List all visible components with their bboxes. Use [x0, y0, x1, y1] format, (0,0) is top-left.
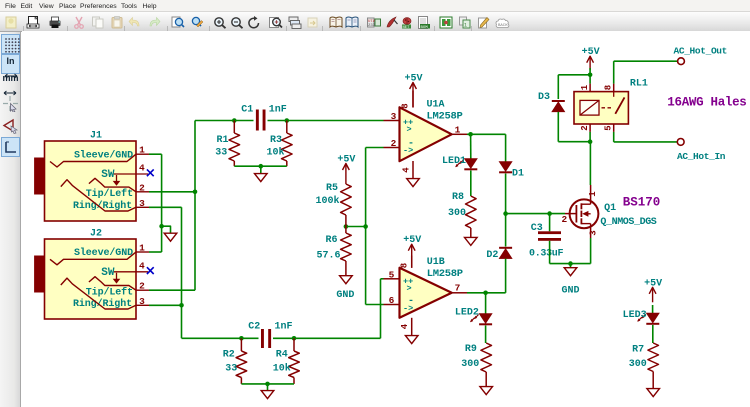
wire ring vertical bus	[181, 207, 183, 338]
svg-text:C1: C1	[241, 104, 253, 115]
junction source ground node	[568, 261, 573, 266]
op-amp U1A body	[400, 107, 452, 161]
connector J2 sleeve barrel	[35, 256, 45, 292]
svg-text:>: >	[407, 284, 412, 294]
wire source to ground run	[550, 263, 591, 265]
connector J2 ring contact arm	[61, 278, 136, 309]
svg-text:R4: R4	[276, 349, 288, 360]
svg-text:3: 3	[588, 230, 598, 235]
wire D1 branch down	[505, 134, 507, 161]
transistor Q1 source pin	[581, 223, 590, 225]
op-amp U1A pin 2	[384, 147, 400, 149]
capacitor C2	[261, 329, 264, 348]
connector J1 pin 1	[136, 153, 149, 155]
connector J1 sleeve contact arm	[50, 154, 136, 167]
junction tip bus at J1 pin2	[193, 190, 198, 195]
wire LED2 to R9	[485, 326, 487, 344]
svg-text:1nF: 1nF	[275, 322, 293, 333]
resistor R1	[233, 121, 235, 134]
wire J2 pin1 to sleeve bus	[149, 251, 162, 253]
svg-text:GND: GND	[561, 286, 579, 297]
svg-text:2: 2	[562, 214, 568, 225]
ground symbol below R7	[647, 389, 660, 397]
svg-text:2: 2	[580, 125, 590, 130]
svg-text:33: 33	[215, 148, 227, 159]
wire C2 net right segment	[273, 337, 381, 339]
svg-text:2: 2	[391, 138, 397, 149]
resistor R3	[286, 121, 288, 134]
relay RL1 body	[574, 92, 628, 124]
connector J1 switch pin line	[114, 173, 148, 175]
LED LED3	[646, 313, 659, 323]
svg-text:300: 300	[629, 359, 647, 370]
svg-text:J2: J2	[90, 229, 102, 240]
svg-text:AC_Hot_Out: AC_Hot_Out	[674, 45, 728, 56]
resistor R5	[341, 184, 352, 215]
svg-text:6: 6	[389, 295, 395, 306]
wire +5V to coil junction	[589, 68, 591, 75]
op-amp U1B pin 5	[384, 278, 400, 280]
no-connect flag at J1 pin 4	[147, 169, 154, 176]
wire J2 pin3 to ring bus	[149, 304, 182, 306]
connector J1 body	[45, 141, 137, 221]
wire gate net to D2	[505, 214, 507, 247]
connector J1 switch actuator arrow	[116, 175, 118, 182]
op-amp U1B pin 7 output	[452, 292, 467, 294]
svg-text:3: 3	[139, 296, 145, 307]
svg-text:3: 3	[391, 111, 397, 122]
junction gate net at C3	[547, 211, 552, 216]
svg-text:D2: D2	[486, 250, 498, 261]
svg-text:33: 33	[225, 364, 237, 375]
resistor R2	[240, 338, 242, 351]
op-amp U1B pin 8 power	[411, 256, 413, 268]
terminal circle AC_Hot_In	[677, 139, 684, 146]
wire J1 pin1 to sleeve bus	[149, 153, 162, 155]
junction U1A output node	[468, 132, 473, 137]
wire junction to D3 top	[558, 74, 590, 76]
op-amp U1B body	[400, 268, 452, 318]
svg-text:100k: 100k	[316, 195, 340, 207]
wire pin2 vertical bus	[365, 148, 367, 305]
svg-text:LED1: LED1	[442, 156, 466, 167]
svg-text:Sleeve/GND: Sleeve/GND	[74, 247, 133, 259]
relay RL1 coil	[580, 100, 599, 115]
connector J1 sleeve barrel	[35, 158, 45, 194]
wire J1 pin2 to tip bus	[149, 191, 195, 193]
LED LED2	[479, 314, 492, 324]
junction R5/R6 tap to bus	[363, 224, 368, 229]
op-amp U1A pin 4 ground	[412, 161, 414, 179]
wire J1 pin3 to ring bus	[149, 206, 182, 208]
connector J2 tip contact arm	[89, 277, 136, 291]
no-connect flag at J2 pin 4	[147, 267, 154, 274]
ground symbol below C1 network	[255, 174, 268, 182]
wire gate net horizontal	[506, 213, 565, 215]
junction C1/R1 left node	[232, 118, 237, 123]
svg-text:57.6: 57.6	[317, 251, 341, 262]
wire coil- to drain junction	[589, 132, 591, 142]
connector J2 switch actuator arrow	[116, 273, 118, 280]
svg-text:Q1: Q1	[604, 203, 616, 214]
svg-text:2: 2	[139, 182, 145, 193]
ground symbol below R9	[480, 387, 493, 395]
resistor R8	[466, 196, 477, 228]
svg-text:U1B: U1B	[427, 257, 445, 268]
wire top net C1 right segment	[268, 120, 384, 122]
LED LED1	[464, 159, 477, 169]
power symbol +5V above U1B	[411, 244, 413, 268]
svg-text:4: 4	[139, 163, 145, 174]
connector J2 switch pin line	[114, 271, 148, 273]
svg-text:SW: SW	[101, 267, 115, 279]
svg-text:1: 1	[580, 84, 590, 90]
wire D3 bottom	[557, 112, 559, 142]
svg-text:+5V: +5V	[403, 235, 421, 246]
diode D2	[499, 249, 512, 259]
wire pin5 vertical to C2 net	[380, 279, 382, 339]
ground symbol at sleeve bus	[164, 233, 177, 241]
svg-text:Tip/Left: Tip/Left	[86, 188, 133, 200]
svg-text:AC_Hot_In: AC_Hot_In	[677, 151, 726, 162]
svg-text:R9: R9	[465, 344, 477, 355]
wire tip vertical bus	[194, 121, 196, 291]
svg-text:R5: R5	[326, 183, 338, 194]
svg-text:3: 3	[139, 198, 145, 209]
junction R5/R6 node	[344, 224, 349, 229]
connector J2 pin 2	[136, 289, 149, 291]
svg-text:LED3: LED3	[623, 310, 647, 321]
svg-text:5: 5	[603, 125, 613, 130]
svg-text:300: 300	[448, 208, 466, 219]
svg-text:1: 1	[139, 145, 145, 156]
wire C2 net left segment	[182, 337, 259, 339]
junction ring bus at J2 pin3	[179, 303, 184, 308]
wire ground stub below C1 network	[260, 166, 262, 173]
connector J1 ring contact arm	[61, 180, 136, 211]
op-amp U1B pin 6	[384, 304, 400, 306]
svg-text:2: 2	[139, 281, 145, 292]
wire +5V to LED3	[652, 305, 654, 313]
wire sleeve vertical bus	[161, 154, 163, 252]
svg-text:Tip/Left: Tip/Left	[86, 286, 133, 298]
capacitor C3	[538, 231, 561, 234]
wire R1-R3 bottom	[234, 165, 286, 167]
svg-text:R1: R1	[217, 135, 229, 146]
junction C2/R2 left node	[239, 336, 244, 341]
wire coil+ to +5V junction	[589, 75, 591, 84]
svg-text:SW: SW	[101, 169, 115, 181]
svg-text:BS170: BS170	[623, 195, 661, 209]
ground symbol below R8	[465, 237, 478, 245]
svg-text:C2: C2	[248, 322, 260, 333]
svg-text:GND: GND	[336, 290, 354, 301]
wire ground stub at source	[570, 264, 572, 268]
svg-text:R8: R8	[452, 192, 464, 203]
wire U1A pin2 horizontal	[366, 147, 384, 149]
svg-text:Ring/Right: Ring/Right	[73, 298, 132, 310]
op-amp U1A pin 8 power	[412, 91, 414, 108]
svg-text:5: 5	[389, 269, 395, 280]
transistor Q1 gate pin	[565, 213, 570, 215]
wire NO contact to AC_Hot_In	[613, 132, 615, 142]
power symbol +5V above relay	[589, 56, 591, 70]
svg-text:16AWG Hales: 16AWG Hales	[667, 96, 746, 110]
wire D2 to U1B output	[505, 259, 507, 293]
resistor R7	[648, 343, 659, 372]
junction D3/coil/drain	[588, 139, 593, 144]
svg-text:+5V: +5V	[404, 74, 422, 85]
capacitor C1	[256, 110, 259, 131]
svg-text:300: 300	[461, 359, 479, 370]
diode D3	[552, 102, 565, 112]
svg-text:Sleeve/GND: Sleeve/GND	[74, 149, 133, 161]
wire C3 top stub	[549, 214, 551, 232]
wire top net C1 left segment	[195, 120, 254, 122]
resistor R4	[293, 338, 295, 351]
relay RL1 pin 8	[613, 84, 615, 92]
connector J1 pin 2	[136, 191, 149, 193]
svg-text:+5V: +5V	[644, 278, 662, 289]
svg-text:R7: R7	[632, 344, 644, 355]
svg-text:10k: 10k	[267, 147, 285, 159]
ground symbol below U1B	[405, 336, 418, 344]
svg-text:8: 8	[401, 103, 411, 108]
power symbol +5V above U1A	[412, 83, 414, 108]
resistor R6	[345, 227, 347, 234]
svg-text:J1: J1	[90, 131, 102, 142]
svg-text:8: 8	[400, 263, 410, 268]
wire R5/R6 tap	[346, 226, 366, 228]
connector J2 pin 1	[136, 251, 149, 253]
wire D1 to gate net	[505, 174, 507, 214]
svg-text:R3: R3	[270, 135, 282, 146]
connector J2 pin 3	[136, 304, 149, 306]
junction R1/R3 ground node	[259, 164, 264, 169]
svg-text:LM258P: LM258P	[427, 268, 463, 280]
svg-text:Q_NMOS_DGS: Q_NMOS_DGS	[600, 217, 656, 228]
svg-text:8: 8	[603, 85, 613, 90]
relay RL1 pin 1	[589, 84, 591, 92]
svg-text:4: 4	[139, 260, 145, 271]
wire LED3 to R7	[652, 325, 654, 343]
svg-text:R6: R6	[326, 235, 338, 246]
power symbol GND below R6	[340, 276, 353, 284]
svg-text:->: ->	[403, 146, 413, 156]
power symbol +5V above LED3	[652, 287, 654, 302]
diode D1	[499, 162, 512, 172]
svg-text:4: 4	[402, 167, 412, 173]
relay RL1 pin 5	[613, 124, 615, 132]
wire sleeve ground stub	[162, 226, 171, 233]
svg-text:7: 7	[455, 282, 461, 293]
wire LED1 to R8	[470, 171, 472, 197]
wire U1A output	[467, 133, 506, 135]
wire J2 pin2 to tip bus	[149, 289, 195, 291]
svg-text:LED2: LED2	[455, 308, 479, 319]
connector J2 sleeve contact arm	[50, 252, 136, 265]
svg-text:+5V: +5V	[582, 47, 600, 58]
resistor R9	[481, 343, 492, 372]
ground symbol below C2 network	[261, 391, 274, 399]
svg-text:RL1: RL1	[630, 79, 648, 90]
junction R2/R4 ground node	[265, 382, 270, 387]
svg-text:10k: 10k	[273, 363, 291, 375]
svg-text:1: 1	[588, 191, 598, 197]
wire source down	[590, 238, 592, 264]
junction +5V/D3/coil	[588, 73, 593, 78]
svg-text:C3: C3	[531, 223, 543, 234]
svg-text:0.33uF: 0.33uF	[529, 248, 564, 259]
svg-text:+5V: +5V	[337, 155, 355, 166]
junction C1/R3 right node	[285, 118, 290, 123]
wire LED2 branch	[485, 293, 487, 314]
wire drain to relay junction	[589, 142, 591, 185]
svg-text:1: 1	[455, 124, 461, 135]
relay RL1 dashed link	[602, 107, 614, 109]
wire U1B output	[467, 292, 506, 294]
junction gate net at D1/D2	[503, 211, 508, 216]
svg-text:->: ->	[403, 304, 413, 314]
transistor Q1 body	[570, 199, 599, 228]
power symbol +5V above R5	[345, 164, 347, 185]
connector J1 tip contact arm	[89, 178, 136, 192]
op-amp U1A pin 3	[384, 120, 400, 122]
svg-text:D3: D3	[538, 92, 550, 103]
svg-text:1: 1	[139, 243, 145, 254]
wire LED1 branch	[470, 134, 472, 158]
ground symbol below U1A	[407, 179, 420, 187]
svg-text:>: >	[407, 125, 412, 135]
wire common to AC_Hot_Out	[613, 61, 615, 83]
svg-text:R2: R2	[223, 349, 235, 360]
junction sleeve-ground	[159, 224, 164, 229]
svg-text:1nF: 1nF	[269, 104, 287, 115]
junction U1B output node	[483, 291, 488, 296]
connector J2 body	[45, 239, 137, 319]
svg-text:4: 4	[400, 323, 410, 329]
terminal circle AC_Hot_Out	[678, 58, 685, 65]
op-amp U1B pin 4 ground	[411, 318, 413, 336]
wire U1B pin5 horizontal	[381, 278, 384, 280]
svg-text:D1: D1	[512, 169, 524, 180]
svg-text:U1A: U1A	[427, 100, 445, 111]
relay RL1 switch lever	[615, 97, 624, 113]
power symbol GND below Q1	[564, 268, 577, 276]
svg-text:LM258P: LM258P	[427, 110, 463, 122]
wire U1B pin6 horizontal	[366, 304, 384, 306]
junction C2/R4 right node	[292, 336, 297, 341]
wire R2-R4 bottom	[241, 383, 294, 385]
connector J1 pin 3	[136, 206, 149, 208]
op-amp U1A pin 1 output	[452, 133, 467, 135]
wire ground stub below C2 network	[267, 384, 269, 391]
transistor Q1 drain pin	[581, 203, 590, 205]
wire C3 bottom stub	[549, 241, 551, 264]
relay RL1 pin 2	[589, 124, 591, 132]
svg-text:Ring/Right: Ring/Right	[73, 200, 132, 212]
